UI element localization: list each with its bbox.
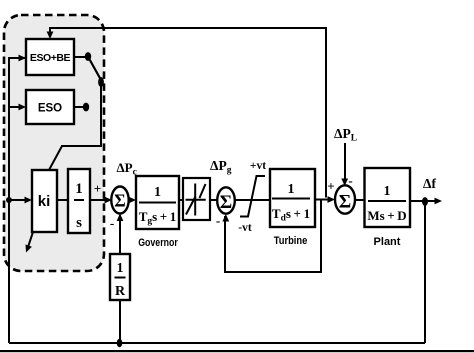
svg-text:Ms + D: Ms + D bbox=[367, 208, 406, 223]
svg-text:Σ: Σ bbox=[220, 192, 232, 213]
svg-text:1: 1 bbox=[288, 182, 295, 197]
summer S1 bbox=[111, 187, 128, 214]
svg-text:ESO+BE: ESO+BE bbox=[30, 52, 71, 64]
wire: S2 to turbine through rate limiter bbox=[235, 199, 270, 201]
svg-text:-: - bbox=[216, 213, 220, 228]
wire: switch pole to ki bbox=[49, 86, 101, 170]
node: ki branch junction bbox=[6, 197, 12, 203]
block dead-band limiter bbox=[183, 178, 210, 220]
svg-text:Tgs + 1: Tgs + 1 bbox=[139, 209, 177, 227]
bottom border line bbox=[0, 350, 474, 352]
switch lever bbox=[89, 58, 102, 81]
wire: ESO output stub bbox=[74, 106, 83, 108]
svg-text:Σ: Σ bbox=[339, 192, 351, 213]
wire: GRC feedback from turbine output to S2 bbox=[225, 200, 321, 273]
svg-text:+vt: +vt bbox=[250, 160, 266, 172]
svg-text:1: 1 bbox=[75, 181, 83, 197]
rate limiter symbol bbox=[240, 176, 265, 217]
switch contact dot ESO bbox=[83, 103, 89, 112]
svg-text:Plant: Plant bbox=[374, 236, 401, 248]
block Plant bbox=[365, 168, 411, 227]
svg-text:+: + bbox=[327, 179, 334, 194]
wire: ESO+BE output stub bbox=[74, 56, 85, 58]
ki adaptation arrow bbox=[28, 232, 33, 247]
block integrator 1/s bbox=[68, 169, 90, 233]
wire: plant output to df bbox=[410, 200, 436, 202]
svg-text:Σ: Σ bbox=[114, 191, 125, 211]
svg-text:Turbine: Turbine bbox=[274, 235, 308, 247]
block Turbine bbox=[270, 169, 315, 227]
node: 1/R junction on bottom feedback bbox=[117, 339, 123, 347]
summer S2 bbox=[217, 187, 235, 213]
dashed ESO selector enclosure bbox=[4, 15, 104, 271]
svg-text:-: - bbox=[110, 216, 114, 231]
block ki bbox=[32, 170, 57, 232]
wire: integrator to summer S1 bbox=[90, 199, 106, 201]
wire: branch into ESO bbox=[9, 106, 21, 108]
switch pole dot bbox=[98, 77, 104, 87]
svg-text:Governor: Governor bbox=[138, 237, 178, 249]
block 1/R bbox=[110, 254, 130, 300]
wire: right riser from output bbox=[424, 201, 426, 343]
svg-text:s: s bbox=[76, 215, 82, 231]
wire: S3 to plant bbox=[355, 199, 365, 201]
block ESO+BE bbox=[26, 39, 74, 75]
block Governor bbox=[136, 176, 179, 229]
arrowhead into ESO+BE left bbox=[19, 55, 27, 62]
svg-text:+: + bbox=[94, 181, 101, 196]
wire: top feedback from turbine output to ESO+BE bbox=[50, 28, 326, 198]
block ESO bbox=[26, 90, 74, 124]
wire: deadband to summer S2 bbox=[210, 199, 217, 201]
wire: turbine to summer S3 bbox=[315, 199, 328, 201]
wire: ki to integrator bbox=[57, 199, 68, 201]
svg-text:1: 1 bbox=[154, 185, 161, 200]
svg-text:R: R bbox=[115, 284, 126, 299]
svg-text:1: 1 bbox=[384, 184, 391, 199]
summer S3 bbox=[335, 185, 355, 213]
svg-text:ki: ki bbox=[38, 193, 51, 210]
wire: load disturbance arrow into S3 bbox=[344, 143, 346, 180]
wire: branch into ki bbox=[9, 199, 26, 201]
svg-text:ESO: ESO bbox=[38, 103, 62, 115]
wire: S1 bottom input from 1/R bbox=[119, 215, 121, 254]
wire: bottom feedback bbox=[9, 342, 425, 344]
svg-text:Δf: Δf bbox=[423, 176, 436, 191]
switch contact dot ESO+BE bbox=[85, 52, 91, 61]
svg-text:1: 1 bbox=[117, 261, 124, 276]
wire: left feedback bus bbox=[9, 58, 26, 343]
svg-text:Tds + 1: Tds + 1 bbox=[272, 206, 310, 224]
node: output junction bbox=[422, 197, 428, 206]
wire: bottom feedback up into 1/R bbox=[119, 300, 121, 343]
svg-text:-vt: -vt bbox=[238, 222, 252, 234]
wire: governor to deadband bbox=[179, 199, 183, 201]
wire: S1 to governor bbox=[129, 199, 131, 201]
